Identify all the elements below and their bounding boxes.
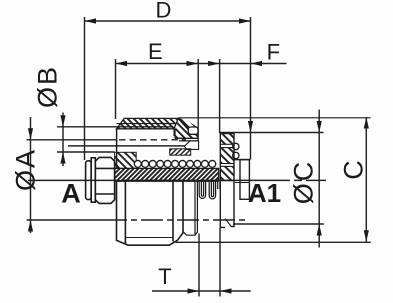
svg-text:E: E [148,39,163,64]
svg-text:A: A [61,179,81,209]
svg-text:T: T [158,264,171,289]
svg-text:ØA: ØA [11,148,41,191]
svg-text:C: C [339,158,369,180]
svg-text:A1: A1 [248,178,281,208]
svg-text:ØB: ØB [33,65,63,108]
svg-text:ØC: ØC [289,160,319,205]
svg-text:F: F [267,40,280,65]
svg-text:D: D [156,0,172,23]
